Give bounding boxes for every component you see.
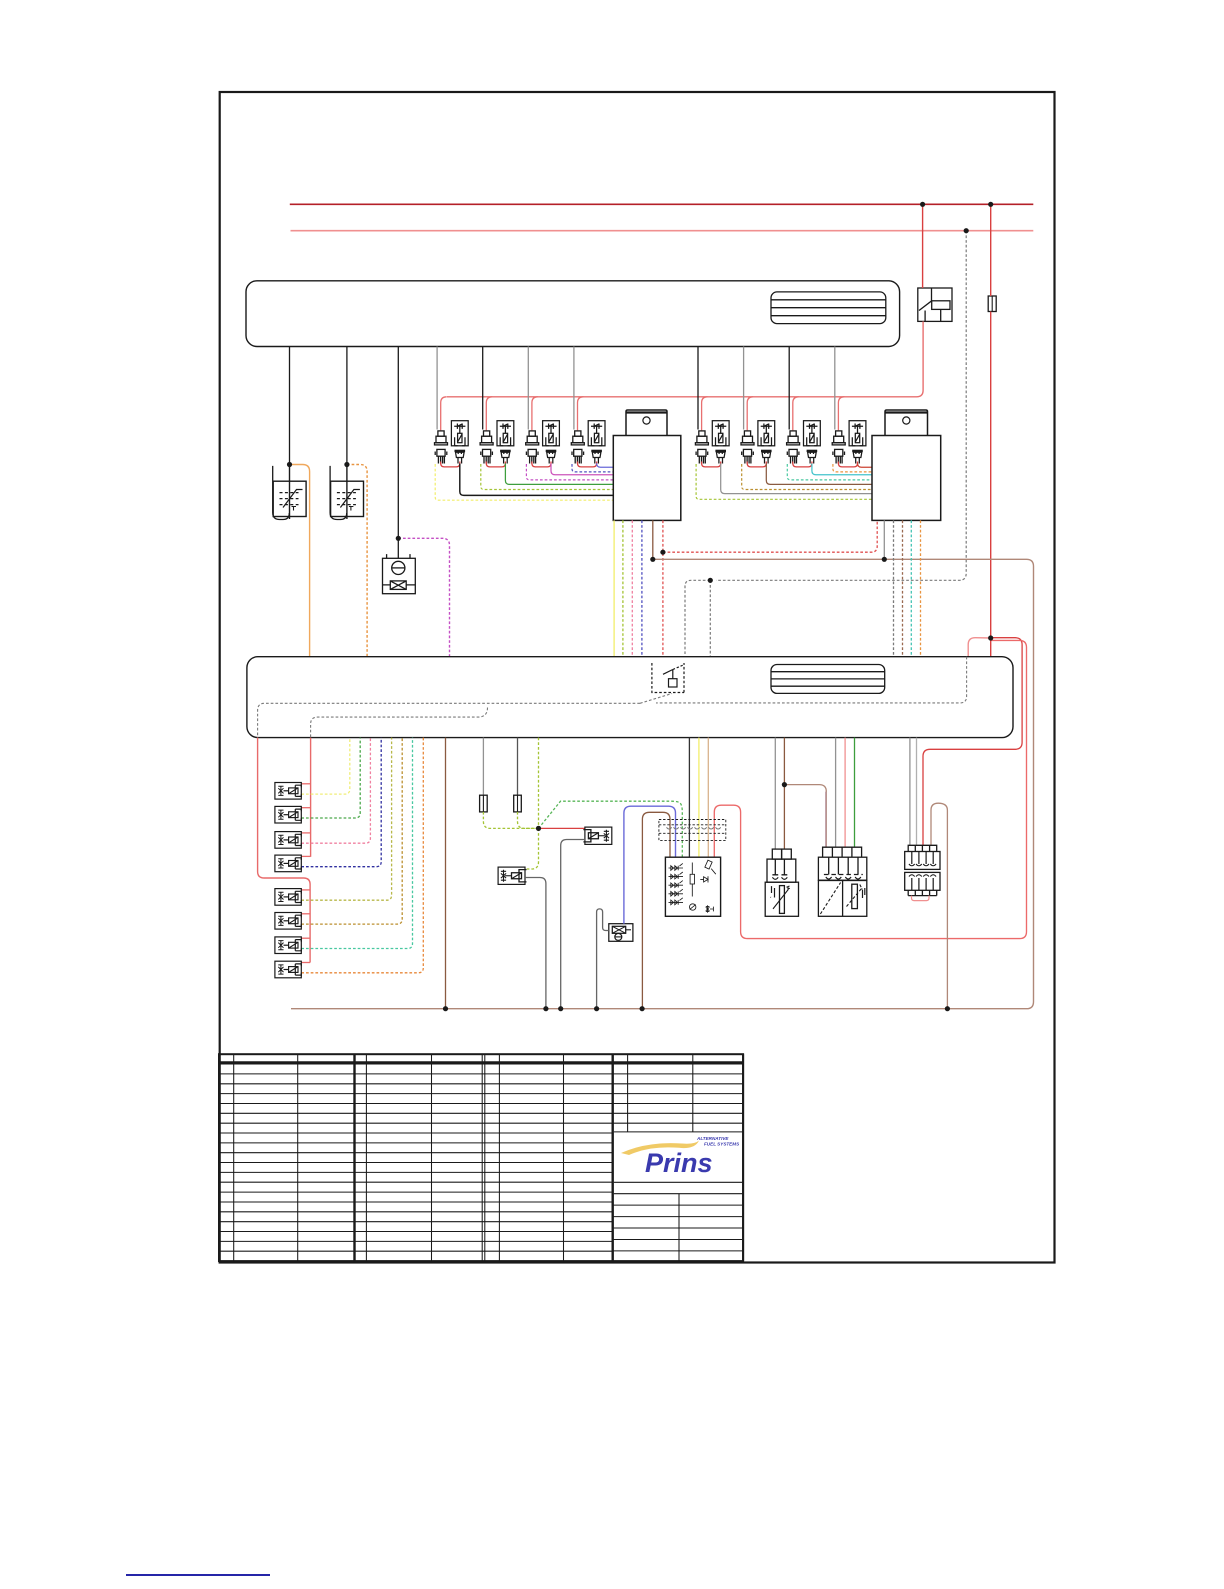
wire LPG injector 7 feed stub (301, 937, 310, 939)
wire AFC2 ground gray (883, 520, 885, 559)
wire injector feed drop (702, 397, 708, 431)
fuse 3 (514, 795, 522, 812)
AFC ECU internal switch lever dashed (640, 694, 672, 704)
wire petrol injector 7 wire (788, 347, 790, 430)
tank level sender (609, 924, 633, 942)
svg-text:ALTERNATIVE: ALTERNATIVE (696, 1136, 729, 1141)
wire sensorB in (854, 738, 856, 848)
wire petrol inj signals left bank solid (460, 464, 614, 496)
wire fuse feed red (990, 204, 992, 656)
wire petrol injector 3 wire (527, 347, 529, 430)
MAP sensor (383, 554, 416, 594)
wire petrol injector 4 wire (573, 347, 575, 430)
wire injector feed drop (793, 397, 799, 431)
wire LPG injector 8 signal dashed (301, 738, 423, 973)
wire LPG injector 1 signal dashed (301, 738, 350, 795)
wire LPG injector 4 signal dashed (301, 738, 381, 867)
wire +12V to sensor supply branch (923, 638, 1022, 846)
fuse 2 (480, 795, 488, 812)
wire fuse3 feed gray (517, 738, 519, 796)
petrol injector pair 6 (741, 431, 754, 464)
wire red dashed cross link (663, 520, 877, 552)
wire AFC2 gray dashed out (893, 520, 895, 656)
wire switch tan (707, 738, 709, 858)
wire sensorC pink hook (912, 896, 930, 901)
wire sensorC gray 2 (916, 738, 918, 846)
LPG injector 1 (275, 783, 301, 800)
fuse main (988, 296, 996, 312)
wire LPG injector 7 signal dashed (301, 738, 412, 949)
lockoff connector pair (905, 845, 940, 895)
wire petrol inj signals right bank solid (721, 464, 872, 494)
LPG injector 5 (275, 889, 301, 906)
petrol injector pair 4 (571, 431, 584, 464)
wire LPG injector 6 signal dashed (301, 738, 402, 925)
wire valve feed yg dashed vertical (538, 738, 540, 829)
wire switch ground brown (642, 812, 670, 1008)
wire sensorB in (844, 738, 846, 848)
wire LPG injector 3 signal dashed (301, 738, 370, 844)
wire MAP sensor signal (397, 347, 399, 539)
AFC driver box 1 (613, 410, 681, 520)
wire switch yellow (698, 738, 700, 858)
LPG injector 8 (275, 961, 301, 978)
petrol injector pair 1 (435, 431, 448, 464)
wire switch black (688, 738, 690, 858)
wire valve1 ground gray (561, 840, 585, 1009)
wire +12V battery line (dark red) (290, 203, 1034, 205)
wire petrol injector 5 wire (697, 347, 699, 430)
service switch (652, 663, 685, 693)
wire valve1 feed red (539, 827, 585, 829)
wire sensorA gray (774, 738, 776, 850)
junction dots (920, 202, 925, 207)
LPG temp sensor (765, 849, 798, 916)
wire AFC1 blue out (641, 520, 643, 656)
wire LPG injector 6 feed stub (301, 913, 310, 915)
relay (918, 288, 952, 321)
wire fuse2 feed gray (482, 738, 484, 796)
wire AFC ECU ground brown left (445, 738, 447, 1009)
AFC ECU box (247, 657, 1013, 738)
wire AFC1 ground brown (652, 520, 654, 559)
wire petrol injector 8 wire (834, 347, 836, 430)
wire sensorA brown (783, 738, 785, 850)
wire sensorC gray 1 (909, 738, 911, 846)
wire temp sensor 1 signal (289, 347, 291, 465)
petrol ECU box (246, 281, 900, 347)
wire petrol injector 6 wire (743, 347, 745, 430)
wire AFC1 salmon out (631, 520, 633, 656)
temperature sensor 2 (330, 466, 347, 520)
wire LPG bus 1 red (310, 738, 312, 857)
wire fuse2 out yg dashed (483, 812, 538, 829)
wire tank sender ground gray (597, 909, 609, 1009)
LPG valve tank (498, 867, 526, 884)
LPG injector 3 (275, 832, 301, 849)
svg-text:FUEL SYSTEMS: FUEL SYSTEMS (704, 1142, 740, 1147)
LPG injector 7 (275, 937, 301, 954)
wire LPG injector 5 feed stub (301, 889, 310, 891)
wire valve2 ground gray (525, 878, 546, 1009)
footer blue line (126, 1574, 270, 1576)
AFC ECU internal bus dashed (656, 657, 967, 703)
wire AFC1 yellow out (613, 520, 615, 656)
wire temp sensor 2 signal (346, 347, 348, 465)
wire LPG injector 2 signal dashed (301, 738, 360, 818)
Prins logo (621, 1136, 740, 1178)
wire temp sensor 2 orange dashed (347, 465, 367, 657)
temperature sensor 1 (273, 466, 290, 520)
wire +12V to switch branch (714, 640, 1026, 938)
wire petrol inj signals right bank dashed (696, 464, 872, 499)
wire relay feed red (922, 204, 924, 288)
wire switch green dashed (539, 801, 683, 857)
wire LPG injector 8 feed stub (301, 962, 310, 964)
AFC driver box 2 (872, 410, 941, 520)
wire petrol inj signals left bank dashed (435, 464, 613, 500)
wire AFC2 orange dashed out (920, 520, 922, 656)
svg-text:Prins: Prins (645, 1148, 713, 1178)
wire sensorB in (825, 792, 827, 848)
wire LPG injector 1 feed stub (301, 783, 310, 785)
wire injector feed drop (747, 397, 753, 431)
wire LPG injector 3 feed stub (301, 832, 310, 834)
wire AFC2 brown dashed out (902, 520, 904, 656)
wire fuse3 out yg dashed (518, 812, 539, 829)
wire LPG injector 2 feed stub (301, 807, 310, 809)
switch connector dashed (659, 820, 726, 841)
LPG injector 2 (275, 806, 301, 823)
pressure temp sensor (818, 847, 866, 916)
wire MAP violet dashed (398, 538, 449, 656)
wire tank sender blue (624, 806, 676, 924)
fuel selector switch (665, 857, 720, 916)
LPG injector 6 (275, 913, 301, 930)
petrol injector pair 2 (480, 431, 493, 464)
AFC ECU connector (771, 665, 885, 694)
petrol injector pair 7 (787, 431, 800, 464)
title block table (219, 1054, 743, 1261)
wire sensorB in (835, 738, 837, 848)
wire AFC1 yellow-green out (622, 520, 624, 656)
wire ground bus brown (291, 559, 1034, 1008)
wire injector feed drop (578, 397, 584, 431)
AFC ECU internal bus 2 dashed (311, 708, 488, 738)
wire temp sensor 1 orange (290, 465, 310, 657)
petrol injector pair 5 (695, 431, 708, 464)
wire AFC2 cyan dashed out (910, 520, 912, 656)
wire brown branch to sensorB (784, 785, 826, 848)
wire LPG injector 4 feed stub (301, 855, 310, 857)
wire injector feed drop (532, 397, 538, 431)
wire LPG injector 5 signal dashed (301, 738, 391, 901)
wire injector feed drop (441, 397, 447, 431)
wire injector feed drop (838, 397, 844, 431)
wire +15 ignition line (light red) (291, 230, 1034, 232)
wire petrol injector 2 wire (482, 347, 484, 430)
LPG injector 4 (275, 855, 301, 872)
wire AFC1 red dashed out (662, 520, 664, 656)
wire sensorC brown loop (931, 803, 947, 1009)
LPG valve front (583, 827, 611, 844)
border frame (220, 92, 1055, 1263)
wire valve2 feed yg dashed (525, 828, 538, 869)
wire LPG bus 2 red (258, 738, 311, 963)
petrol ECU connector (771, 292, 886, 324)
wire relay switched gray dashed (716, 231, 966, 581)
wire +12V into AFC left branch (968, 638, 991, 657)
petrol injector pair 3 (526, 431, 539, 464)
wire injector +12V bus (447, 321, 923, 396)
wire injector feed drop (486, 397, 492, 431)
wire petrol injector 1 wire (436, 347, 438, 430)
petrol injector pair 8 (832, 431, 845, 464)
